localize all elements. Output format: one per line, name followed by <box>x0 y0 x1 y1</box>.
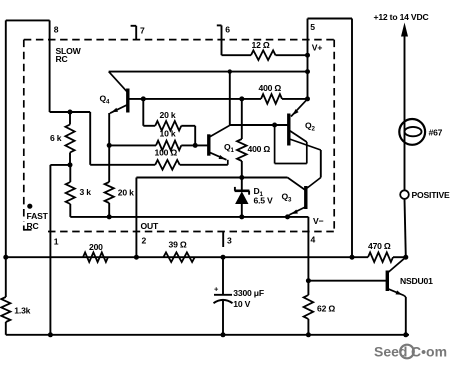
node capacitor bottom junction <box>221 332 226 337</box>
svg-text:20 k: 20 k <box>118 188 134 198</box>
svg-text:6 k: 6 k <box>50 133 62 143</box>
FAST RC bullet marker <box>27 204 32 209</box>
svg-text:39 Ω: 39 Ω <box>169 240 187 250</box>
pin 1 label <box>54 237 59 247</box>
wire external rail <box>6 256 368 258</box>
pin 5 label <box>310 22 315 32</box>
svg-text:3: 3 <box>227 235 232 245</box>
svg-text:C•om: C•om <box>411 344 447 360</box>
node Q1 collector rail junction <box>228 69 232 73</box>
node Q3 emitter junction <box>285 214 290 219</box>
resistor 100 ohm <box>90 148 228 170</box>
resistor 470 ohm <box>368 241 406 262</box>
pin 4 label <box>311 235 316 245</box>
node 12ohm V+ junction <box>305 53 310 58</box>
transistor Q3 <box>282 178 321 217</box>
svg-text:8: 8 <box>54 25 59 35</box>
resistor 20k vertical <box>105 182 135 217</box>
wire positive terminal to 470 junction <box>405 199 406 257</box>
capacitor 3300uF 10V <box>214 257 264 335</box>
svg-text:4: 4 <box>311 235 316 245</box>
transistor Q2 <box>275 99 321 164</box>
pin 6 lead <box>217 25 222 55</box>
wire outer loop top right <box>308 18 353 20</box>
diode D1 zener 6.5V <box>235 178 273 217</box>
wire outer loop top edge <box>6 19 50 21</box>
node 62ohm bottom junction <box>306 332 311 337</box>
node 20k bottom junction <box>107 214 112 219</box>
wire OUT rail <box>136 177 287 179</box>
svg-text:1: 1 <box>54 237 59 247</box>
resistor 10k <box>109 129 208 151</box>
resistor 400 ohm horizontal <box>259 83 308 104</box>
IC package dashed outline (right edge) <box>333 40 335 232</box>
supply arrow <box>401 23 408 191</box>
IC package dashed outline (bottom edge) <box>48 231 334 233</box>
node pin2 rail junction <box>134 255 139 260</box>
IC package dashed outline (top edge) <box>24 39 334 41</box>
wire Q4 base line <box>128 98 261 100</box>
node Q2 emitter junction <box>305 96 310 101</box>
node pin4 62ohm junction <box>306 278 311 283</box>
svg-text:100 Ω: 100 Ω <box>155 148 178 158</box>
node pin1 bottom rail junction <box>48 332 53 337</box>
node Q1 base junction <box>193 143 198 148</box>
svg-text:470 Ω: 470 Ω <box>368 241 391 251</box>
wire Q2 collector to Q3 collector <box>320 150 322 178</box>
svg-text:3 k: 3 k <box>80 187 92 197</box>
label OUT <box>141 221 159 231</box>
wire outer loop right edge <box>351 19 353 258</box>
node D1 top junction <box>239 175 244 180</box>
wire 6k bottom to pin1 corner <box>50 164 70 166</box>
transistor Q1 <box>209 125 235 165</box>
resistor 12 ohm <box>222 40 308 60</box>
pin 3 label <box>227 235 232 245</box>
pin 1 lead wire <box>49 165 51 335</box>
node NSDU01 emitter junction <box>403 332 408 337</box>
transistor Q4 <box>100 72 128 114</box>
node 470 ohm right junction <box>403 255 408 260</box>
label +12 to 14 VDC <box>374 12 429 22</box>
svg-text:OUT: OUT <box>141 221 159 231</box>
node 400ohm-vertical top junction <box>239 96 244 101</box>
pin 2 lead wire <box>135 178 137 258</box>
pin 7 label <box>140 26 145 36</box>
svg-text:V+: V+ <box>312 43 323 53</box>
svg-text:10 k: 10 k <box>160 129 176 139</box>
node Q4 emitter 10k junction <box>107 143 112 148</box>
node 6k bottom junction <box>68 162 73 167</box>
label FAST RC <box>27 211 49 231</box>
wire NSDU01 emitter down <box>405 297 407 335</box>
label V- <box>313 216 324 226</box>
label V+ <box>312 43 323 53</box>
watermark SeedIC.com <box>374 344 447 360</box>
resistor 39 ohm <box>163 240 194 263</box>
svg-text:400 Ω: 400 Ω <box>259 83 282 93</box>
svg-text:12 Ω: 12 Ω <box>252 40 270 50</box>
wire outer loop left edge upper <box>5 20 7 297</box>
wire Q1 collector up <box>229 72 231 126</box>
wire bottom ground rail <box>6 334 409 336</box>
IC package dashed outline (left edge) <box>23 40 25 222</box>
node capacitor top junction <box>221 255 226 260</box>
svg-text:10 V: 10 V <box>233 299 250 309</box>
svg-text:1.3k: 1.3k <box>14 306 30 316</box>
pin 3 stub lead <box>222 232 224 247</box>
lamp #67 <box>399 119 442 145</box>
wire Q1 collector to Q2 base <box>230 124 288 126</box>
resistor 400 ohm vertical <box>237 99 270 178</box>
terminal POSITIVE <box>400 190 450 200</box>
pin 5 lead wire <box>307 19 309 99</box>
wire internal top rail <box>109 71 308 73</box>
svg-text:#67: #67 <box>429 128 443 138</box>
node 470 ohm left junction <box>350 255 355 260</box>
svg-text:7: 7 <box>140 26 145 36</box>
svg-text:400 Ω: 400 Ω <box>248 144 271 154</box>
svg-text:6.5 V: 6.5 V <box>254 196 274 206</box>
pin 6 label <box>225 25 230 35</box>
pin 8 label <box>54 25 59 35</box>
resistor 1.3k <box>1 297 30 322</box>
wire NSDU01 base <box>308 280 387 282</box>
svg-text:5: 5 <box>310 22 315 32</box>
wire Q4 emitter down <box>108 113 110 182</box>
svg-text:20 k: 20 k <box>160 110 176 120</box>
IC package dashed outline (corner bracket near FAST RC) <box>24 226 32 231</box>
pin 7 stub lead <box>131 26 137 40</box>
svg-text:2: 2 <box>142 236 147 246</box>
svg-text:200: 200 <box>89 242 103 252</box>
node rail left junction <box>3 255 8 260</box>
node top rail V+ junction <box>305 69 310 74</box>
svg-text:3300 μF: 3300 μF <box>233 288 264 298</box>
svg-text:NSDU01: NSDU01 <box>400 276 433 286</box>
svg-text:+12 to 14 VDC: +12 to 14 VDC <box>374 12 429 22</box>
node 20k tap junction <box>141 96 146 101</box>
pin 2 label <box>142 236 147 246</box>
wire pin8 to 6k top <box>50 111 91 113</box>
svg-text:62 Ω: 62 Ω <box>317 304 335 314</box>
node Q2 base-collector junction <box>272 123 277 128</box>
resistor 62 ohm <box>304 281 336 335</box>
resistor 20k horizontal <box>143 99 195 145</box>
label SLOW RC <box>56 46 82 64</box>
svg-text:RC: RC <box>56 54 68 64</box>
resistor 3k <box>66 165 92 217</box>
wire internal V- rail <box>70 216 308 218</box>
resistor 200 <box>83 242 108 262</box>
node D1 bottom junction <box>239 214 244 219</box>
wire 1.3k bottom lead <box>5 322 7 335</box>
transistor NSDU01 <box>387 257 433 297</box>
svg-text:V−: V− <box>313 216 324 226</box>
svg-text:POSITIVE: POSITIVE <box>412 190 451 200</box>
wire down to 100-ohm line <box>89 112 91 165</box>
svg-text:FAST: FAST <box>27 211 49 221</box>
pin 8 lead wire <box>49 20 51 112</box>
resistor 6k <box>50 112 75 165</box>
svg-text:RC: RC <box>27 221 39 231</box>
svg-text:6: 6 <box>225 25 230 35</box>
node 6k top junction <box>68 110 73 115</box>
pin 4 lead wire <box>307 217 309 281</box>
